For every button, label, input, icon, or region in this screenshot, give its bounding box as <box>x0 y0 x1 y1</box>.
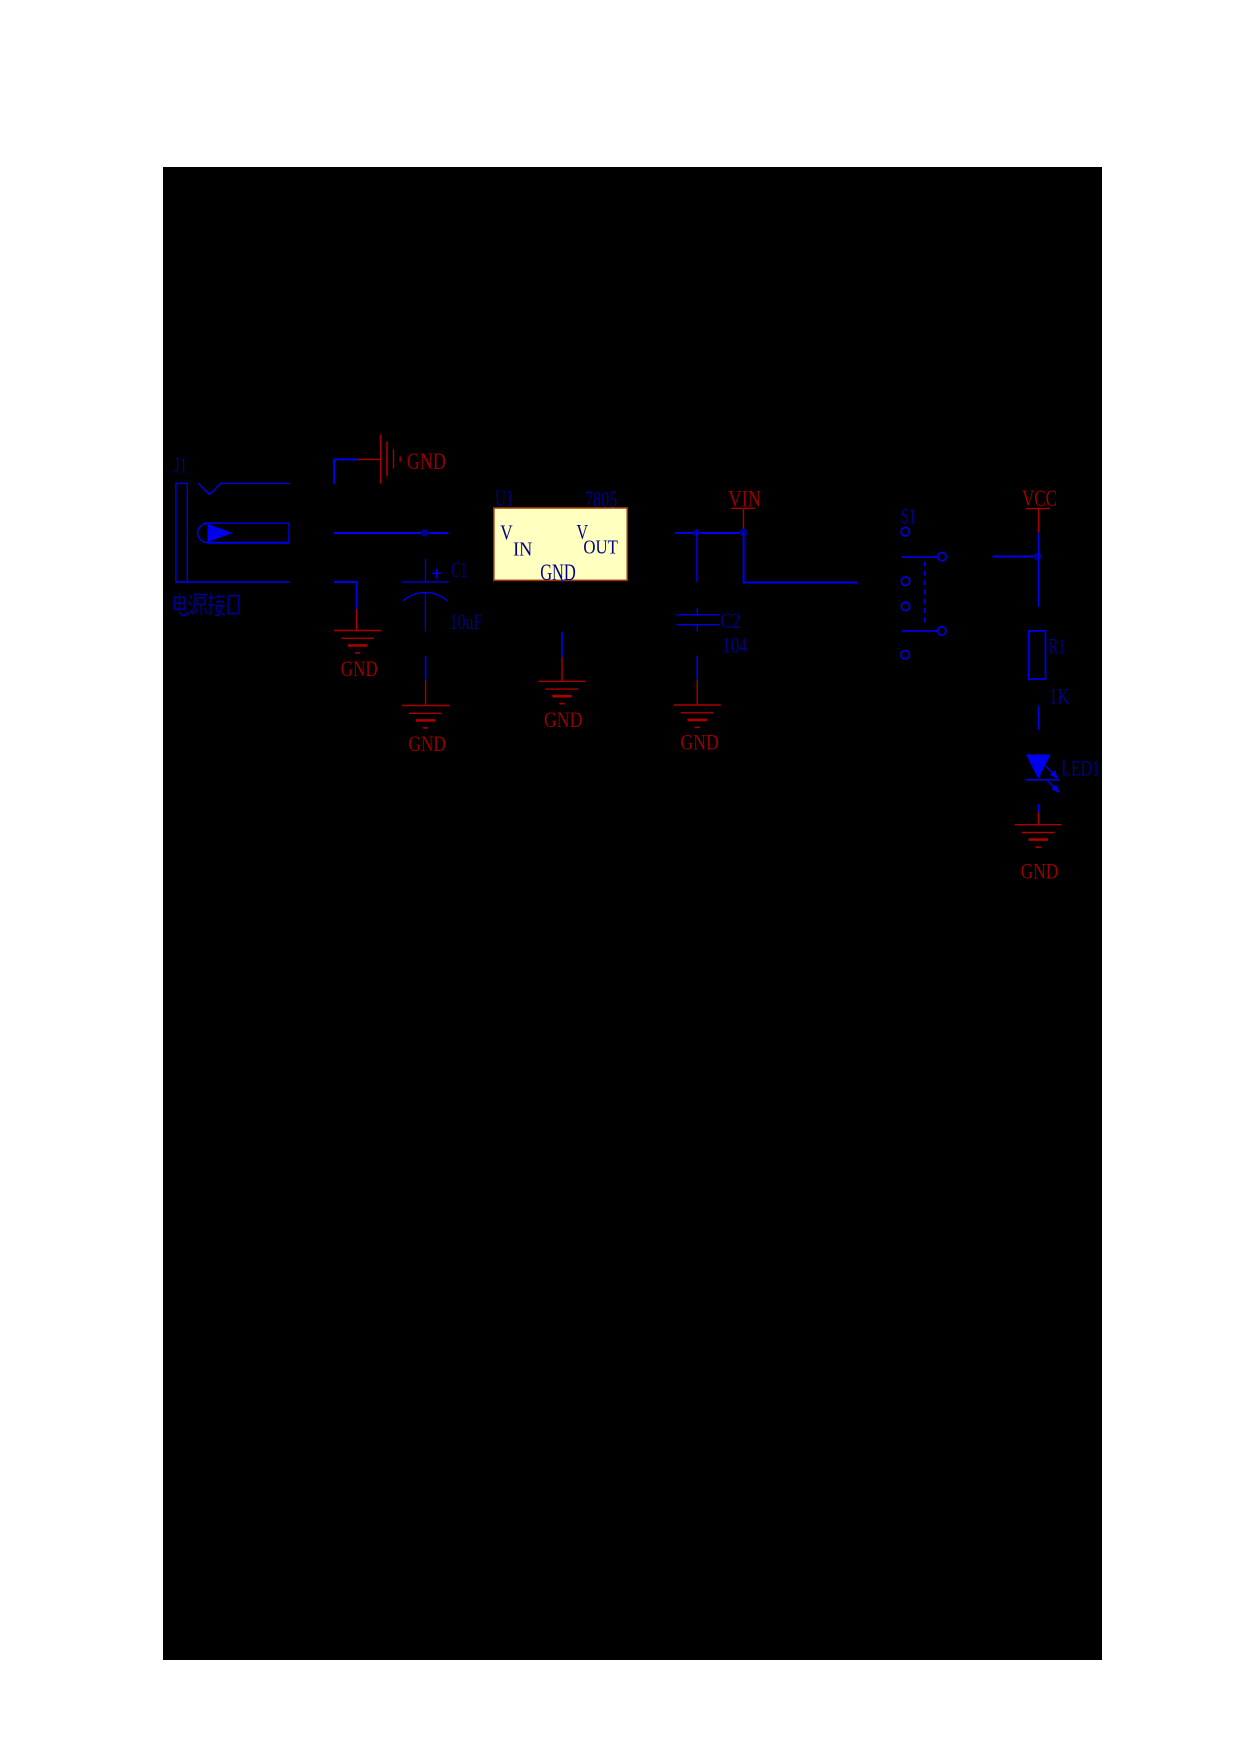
wire: VIN node down and right to switch S1 <box>744 533 858 583</box>
ground (top, sideways) lead <box>358 458 380 460</box>
junction at VIN label <box>739 528 747 536</box>
capacitor C2 (104) <box>676 608 718 632</box>
svg-text:OUT: OUT <box>583 536 618 558</box>
op-amp/regulator U1 body <box>494 508 628 581</box>
resistor R1 <box>1029 631 1046 679</box>
svg-text:GND: GND <box>341 656 378 681</box>
svg-text:GND: GND <box>540 560 576 585</box>
wire: J1 top contact to ground (horizontal) <box>334 458 358 460</box>
wire: U1 VOUT to VIN node <box>675 532 744 534</box>
svg-text:GND: GND <box>408 731 445 756</box>
wire: J1 bottom to ground stub <box>334 582 357 609</box>
wire: S1 to VCC node <box>993 556 1039 558</box>
svg-text:104: 104 <box>722 633 747 658</box>
ground lead (below J1) <box>356 609 358 631</box>
svg-text:R1: R1 <box>1049 634 1066 659</box>
wire: VCC node down to R1 <box>1038 557 1040 607</box>
svg-text:VIN: VIN <box>728 486 761 511</box>
ground (below U1) <box>539 681 586 703</box>
svg-text:10uF: 10uF <box>450 609 483 634</box>
svg-text:1K: 1K <box>1049 684 1069 709</box>
junction on input net at C1 tap <box>421 529 429 537</box>
ground lead (below LED1) <box>1038 812 1040 824</box>
svg-text:S1: S1 <box>901 504 916 529</box>
svg-text:7805: 7805 <box>585 487 617 512</box>
svg-text:VCC: VCC <box>1022 486 1057 511</box>
ground lead (below C1) <box>425 680 427 705</box>
svg-text:U1: U1 <box>495 486 514 511</box>
LED1 diode <box>1026 755 1051 779</box>
svg-text:LED1: LED1 <box>1061 756 1099 781</box>
capacitor C1 (polarized 10uF) <box>402 559 449 632</box>
svg-text:C1: C1 <box>451 557 467 582</box>
svg-text:GND: GND <box>681 729 719 754</box>
ground (below C2) <box>674 705 721 727</box>
svg-text:GND: GND <box>544 707 582 732</box>
svg-text:J1: J1 <box>174 452 187 477</box>
wire: U1 GND pin down <box>561 632 563 657</box>
ground (below C1) <box>402 706 449 728</box>
svg-text:IN: IN <box>513 539 532 561</box>
J1 barrel pin triangle <box>208 524 234 542</box>
ground (below J1) <box>334 631 381 653</box>
wire: C2 top lead from junction <box>696 533 698 582</box>
pin stub U1 GND <box>562 580 564 582</box>
svg-text:GND: GND <box>1021 859 1059 884</box>
switch S1 (DPDT) <box>901 528 946 659</box>
wire: C1 bottom lead <box>425 656 427 680</box>
wire: vertical drop from ground wire toward J1 top line <box>333 458 335 483</box>
ground lead (below U1) <box>561 657 563 681</box>
ground (top, sideways) <box>381 435 401 484</box>
junction at VCC node <box>1034 553 1042 561</box>
wire: R1 to LED1 <box>1038 706 1040 730</box>
LED1 emission arrows <box>1046 766 1059 791</box>
wire: C2 bottom lead <box>696 656 698 681</box>
ground lead (below C2) <box>696 680 698 704</box>
wire: LED1 cathode down <box>1038 804 1040 812</box>
power connector J1 (DC jack symbol) <box>176 483 289 582</box>
junction at C2 tap <box>693 529 700 536</box>
svg-text:V: V <box>500 521 512 545</box>
wire: main input net J1 to U1 VIN <box>334 532 448 534</box>
svg-text:C2: C2 <box>721 608 741 633</box>
ground (below LED1) <box>1015 825 1062 847</box>
svg-text:GND: GND <box>407 449 446 474</box>
wire: VCC lead down to junction <box>1038 533 1040 557</box>
label 电源接口 (drawn strokes) <box>174 593 238 615</box>
